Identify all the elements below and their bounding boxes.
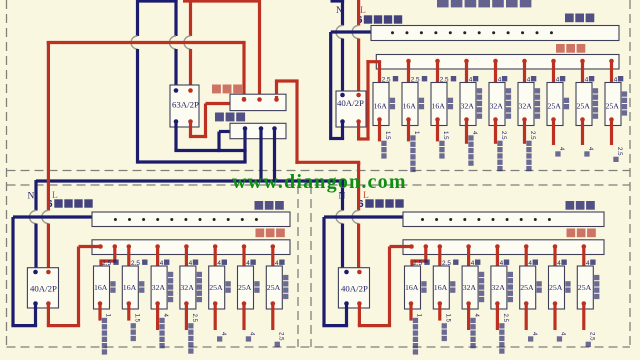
branch breaker TR7 25A: [547, 83, 563, 126]
busbar live service: [230, 94, 286, 110]
stud live B: [257, 97, 262, 102]
branch breaker BL5 out: [213, 301, 218, 306]
label circuit BR5: [537, 281, 542, 286]
wire live to bottom-right panel: [275, 79, 299, 82]
svg-text:25A: 25A: [209, 283, 223, 292]
branch breaker BL3 feed: [155, 244, 160, 249]
svg-text:4: 4: [275, 260, 279, 267]
branch breaker BR2 out: [438, 301, 443, 306]
wire top remnant navy top-right: [331, 0, 345, 3]
svg-text:25A: 25A: [520, 283, 534, 292]
wire breaker N top: [174, 0, 177, 36]
branch breaker BR6 25A: [549, 266, 565, 309]
svg-text:2.5: 2.5: [411, 77, 420, 84]
svg-text:www.diangon.com: www.diangon.com: [232, 171, 407, 193]
svg-text:25A: 25A: [549, 283, 563, 292]
branch breaker BR1 16A: [405, 266, 421, 309]
label circuit BR3: [479, 272, 484, 277]
label circuit BL1: [110, 281, 115, 286]
wire neutral bus lower: [36, 179, 344, 182]
label circuit BR4: [508, 272, 513, 277]
branch breaker BR1 out: [409, 301, 414, 306]
pin 40A TR top-left: [340, 93, 345, 98]
branch breaker BR2 16A: [433, 266, 449, 309]
zone divider horizontal 1: [7, 170, 631, 172]
label 火线排 bottom-left: [256, 229, 265, 238]
svg-text:N: N: [28, 192, 35, 202]
svg-text:2.5: 2.5: [500, 131, 507, 140]
label 零线排 bottom-left: [255, 201, 264, 210]
label circuit BR7: [594, 275, 599, 280]
pin 40A bottom-right bottom-right: [357, 301, 362, 306]
label circuit TR9: [622, 91, 627, 96]
wire 40A TR neutral out: [341, 122, 344, 139]
zone border left: [6, 0, 8, 347]
branch breaker TR7 feed: [551, 59, 556, 64]
label circuit BL6: [254, 281, 259, 286]
svg-text:4: 4: [560, 332, 567, 336]
svg-text:4: 4: [473, 314, 480, 318]
wire neutral feed top-right: [331, 30, 371, 33]
pin 40A TR bottom-left: [340, 119, 345, 124]
svg-text:25A: 25A: [577, 102, 591, 111]
label circuit TR7: [564, 98, 569, 103]
label 火线排 top-right: [556, 44, 565, 53]
svg-text:4: 4: [528, 260, 532, 267]
branch breaker TR1 out: [377, 117, 382, 122]
branch breaker TR9 feed: [609, 59, 614, 64]
svg-text:25A: 25A: [267, 283, 281, 292]
svg-text:4: 4: [217, 260, 221, 267]
stud neutral B: [259, 126, 264, 131]
branch breaker BL1 16A: [94, 266, 110, 309]
busbar live bottom-right: [403, 240, 604, 255]
branch breaker BR4 32A: [491, 266, 507, 309]
svg-text:4: 4: [531, 332, 538, 336]
branch breaker TR3 16A: [431, 83, 447, 126]
wire 63A live out: [189, 122, 192, 137]
svg-text:16A: 16A: [123, 283, 137, 292]
label circuit BL2: [139, 281, 144, 286]
svg-text:2.5: 2.5: [102, 260, 111, 267]
svg-text:4: 4: [587, 147, 594, 151]
branch breaker BL6 feed: [242, 244, 247, 249]
branch breaker TR9 out: [609, 117, 614, 122]
wire N in top-right: [341, 0, 344, 26]
label circuit BR2: [450, 281, 455, 286]
svg-text:4: 4: [614, 77, 618, 84]
busbar live bottom-left: [92, 240, 290, 255]
svg-text:4: 4: [586, 260, 590, 267]
svg-text:2.5: 2.5: [191, 314, 198, 323]
label circuit TR8: [593, 88, 598, 93]
svg-text:40A/2P: 40A/2P: [30, 284, 57, 294]
branch breaker BL5 feed: [213, 244, 218, 249]
wire L in top-right: [357, 0, 360, 26]
svg-text:32A: 32A: [152, 283, 166, 292]
wire top remnant red service: [183, 0, 260, 3]
wire 40A bottom-left neutral out: [34, 304, 37, 326]
pin 40A bottom-left top-left: [33, 270, 38, 275]
svg-text:2.5: 2.5: [413, 260, 422, 267]
branch breaker BR1 feed: [424, 244, 429, 249]
svg-text:4: 4: [162, 314, 169, 318]
wire 40A bottom-right neutral out: [345, 304, 348, 326]
pin 63A top-left: [174, 88, 179, 93]
busbar neutral bottom-right: [403, 212, 604, 227]
branch breaker BR3 feed: [466, 244, 471, 249]
branch breaker TR5 32A: [489, 83, 505, 126]
wire top remnant navy service: [138, 0, 178, 3]
label 零线排 top-right: [565, 14, 574, 23]
svg-text:1.5: 1.5: [442, 131, 449, 140]
svg-text:2.5: 2.5: [588, 332, 595, 341]
svg-text:25A: 25A: [606, 102, 620, 111]
pin 40A bottom-right top-right: [357, 270, 362, 275]
branch breaker BR4 feed: [495, 244, 500, 249]
branch breaker TR2 out: [406, 117, 411, 122]
branch breaker BR5 25A: [520, 266, 536, 309]
svg-text:1: 1: [416, 314, 423, 318]
pin 40A TR top-right: [356, 93, 361, 98]
branch breaker TR3 feed: [435, 59, 440, 64]
svg-text:4: 4: [469, 77, 473, 84]
branch breaker TR8 out: [580, 117, 585, 122]
label circuit BR1: [421, 281, 426, 286]
zone divider horizontal 2: [7, 184, 631, 186]
branch breaker TR8 feed: [580, 59, 585, 64]
svg-text:16A: 16A: [403, 102, 417, 111]
branch breaker BL2 out: [127, 301, 132, 306]
branch breaker BR5 feed: [524, 244, 529, 249]
busbar neutral bottom-left: [92, 212, 290, 227]
svg-text:32A: 32A: [519, 102, 533, 111]
branch breaker TR2 16A: [402, 83, 418, 126]
wire live feed bus: [47, 41, 50, 44]
stud neutral C: [272, 126, 277, 131]
zone border bottom: [7, 346, 631, 348]
branch breaker TR7 out: [551, 117, 556, 122]
label circuit TR6: [535, 88, 540, 93]
svg-text:16A: 16A: [432, 102, 446, 111]
svg-text:16A: 16A: [405, 283, 419, 292]
pin 63A bottom-right: [188, 119, 193, 124]
branch breaker BL6 out: [242, 301, 247, 306]
wire L incoming: [258, 0, 261, 100]
svg-text:25A: 25A: [548, 102, 562, 111]
branch breaker TR3 out: [435, 117, 440, 122]
label 火线排 bottom-right: [567, 229, 576, 238]
svg-text:4: 4: [585, 77, 589, 84]
svg-text:4: 4: [471, 131, 478, 135]
branch breaker BR2 feed: [438, 244, 443, 249]
branch breaker BR4 out: [495, 301, 500, 306]
breaker 40A/2P bottom-left: [27, 268, 58, 308]
stud live A: [242, 97, 245, 100]
svg-text:2.5: 2.5: [529, 131, 536, 140]
branch breaker BL1 out: [98, 301, 103, 306]
label circuit TR4: [477, 88, 482, 93]
branch breaker TR4 32A: [460, 83, 476, 126]
svg-text:1.5: 1.5: [384, 131, 391, 140]
wire N incoming: [136, 0, 139, 36]
svg-text:16A: 16A: [374, 102, 388, 111]
zone divider vertical left: [297, 185, 299, 347]
branch breaker BL2 16A: [122, 266, 138, 309]
wire N incoming to bus: [138, 160, 247, 163]
wire L in bottom-right: [357, 162, 360, 165]
svg-text:4: 4: [471, 260, 475, 267]
svg-text:1.5: 1.5: [444, 314, 451, 323]
wire N in bottom-right: [341, 180, 344, 181]
branch breaker TR6 feed: [522, 59, 527, 64]
svg-text:25A: 25A: [238, 283, 252, 292]
branch breaker BR6 out: [553, 301, 558, 306]
breaker 40A/2P bottom-right: [338, 268, 369, 308]
pin 63A top-right: [188, 88, 193, 93]
zone divider vertical right: [310, 185, 312, 347]
wire 40A bottom-left live out: [47, 304, 50, 326]
svg-text:4: 4: [500, 260, 504, 267]
wire 40A bottom-right live out: [358, 304, 361, 326]
branch breaker BL1 feed: [113, 244, 118, 249]
busbar live top-right: [376, 55, 619, 70]
branch breaker BR7 feed: [582, 244, 587, 249]
svg-text:40A/2P: 40A/2P: [341, 284, 368, 294]
branch breaker TR6 32A: [518, 83, 534, 126]
branch breaker TR4 out: [464, 117, 469, 122]
label circuit BL4: [197, 272, 202, 277]
svg-text:40A/2P: 40A/2P: [337, 98, 364, 108]
branch breaker BR3 out: [466, 301, 471, 306]
branch breaker TR9 25A: [605, 83, 621, 126]
pin 40A bottom-left bottom-left: [33, 301, 38, 306]
pin 40A bottom-right bottom-left: [344, 301, 349, 306]
branch breaker BR6 feed: [553, 244, 558, 249]
svg-text:2.5: 2.5: [131, 260, 140, 267]
branch breaker TR1 feed: [377, 87, 382, 92]
pin 40A TR bottom-right: [356, 119, 361, 124]
pin 40A bottom-left bottom-right: [46, 301, 51, 306]
breaker 40A/2P top-right: [336, 91, 366, 127]
svg-text:4: 4: [249, 332, 256, 336]
stud live C: [275, 81, 278, 94]
branch breaker BL4 feed: [184, 244, 189, 249]
label 火线排 service: [212, 85, 221, 94]
label 零线排 service: [215, 113, 224, 122]
label circuit TR2: [419, 98, 424, 103]
svg-text:4: 4: [527, 77, 531, 84]
svg-text:16A: 16A: [434, 283, 448, 292]
svg-text:4: 4: [220, 332, 227, 336]
svg-text:2.5: 2.5: [616, 147, 623, 156]
branch breaker TR1 16A: [373, 83, 389, 126]
pin 40A bottom-left top-right: [46, 270, 51, 275]
neutral bar dots top-right: [391, 31, 394, 34]
label circuit BR6: [565, 281, 570, 286]
branch breaker BL6 25A: [238, 266, 254, 309]
branch breaker TR6 out: [522, 117, 527, 122]
label circuit BL5: [226, 281, 231, 286]
branch breaker BL7 out: [271, 301, 276, 306]
svg-text:32A: 32A: [491, 283, 505, 292]
wire 63A neutral out: [174, 122, 177, 151]
wire neutral feed bottom-right: [324, 215, 403, 218]
busbar neutral top-right: [371, 26, 619, 41]
svg-text:4: 4: [189, 260, 193, 267]
busbar neutral service: [230, 123, 286, 138]
wire 40A TR live out: [357, 122, 360, 140]
branch breaker BL4 out: [184, 301, 189, 306]
branch breaker TR2 feed: [406, 59, 411, 64]
zone border right: [629, 0, 631, 347]
svg-text:32A: 32A: [490, 102, 504, 111]
branch breaker BL7 25A: [266, 266, 282, 309]
branch breaker BL4 32A: [180, 266, 196, 309]
label circuit TR1: [390, 98, 395, 103]
pin 40A bottom-right top-left: [344, 270, 349, 275]
svg-text:1.5: 1.5: [133, 314, 140, 323]
branch breaker BL2 feed: [127, 244, 132, 249]
neutral bar dots bottom-left: [114, 218, 117, 221]
caption 分成三个区安装: [437, 0, 449, 7]
svg-text:25A: 25A: [578, 283, 592, 292]
branch breaker BR7 25A: [577, 266, 593, 309]
branch breaker BL7 feed: [271, 244, 276, 249]
branch breaker TR5 out: [493, 117, 498, 122]
label 零线排 bottom-right: [566, 201, 575, 210]
wire N in bottom-left: [34, 180, 37, 181]
svg-text:1: 1: [105, 314, 112, 318]
svg-text:2.5: 2.5: [277, 332, 284, 341]
label circuit TR5: [506, 88, 511, 93]
svg-text:4: 4: [160, 260, 164, 267]
svg-text:4: 4: [498, 77, 502, 84]
label circuit TR3: [448, 98, 453, 103]
label circuit BL3: [168, 272, 173, 277]
branch breaker BL5 25A: [209, 266, 225, 309]
svg-text:2.5: 2.5: [442, 260, 451, 267]
branch breaker BL3 32A: [151, 266, 167, 309]
label circuit BL7: [283, 275, 288, 280]
svg-text:32A: 32A: [180, 283, 194, 292]
stud neutral A: [243, 126, 248, 131]
breaker 63A/2P: [170, 85, 199, 127]
svg-text:32A: 32A: [463, 283, 477, 292]
svg-text:4: 4: [558, 147, 565, 151]
svg-text:4: 4: [557, 260, 561, 267]
svg-text:63A/2P: 63A/2P: [172, 100, 199, 110]
branch breaker BL3 out: [155, 301, 160, 306]
branch breaker TR8 25A: [576, 83, 592, 126]
svg-text:2.5: 2.5: [502, 314, 509, 323]
svg-text:1: 1: [413, 131, 420, 135]
svg-text:32A: 32A: [461, 102, 475, 111]
wire neutral feed bottom-left: [13, 215, 92, 218]
branch breaker BR7 out: [582, 301, 587, 306]
wire L in bottom-left: [47, 43, 50, 211]
svg-text:16A: 16A: [94, 283, 108, 292]
branch breaker TR5 feed: [493, 59, 498, 64]
branch breaker BR5 out: [524, 301, 529, 306]
svg-text:4: 4: [246, 260, 250, 267]
neutral bar dots bottom-right: [421, 218, 424, 221]
svg-text:2.5: 2.5: [382, 77, 391, 84]
svg-text:4: 4: [556, 77, 560, 84]
branch breaker TR4 feed: [464, 59, 469, 64]
pin 63A bottom-left: [174, 119, 179, 124]
branch breaker BR3 32A: [462, 266, 478, 309]
svg-text:2.5: 2.5: [440, 77, 449, 84]
wire breaker L top: [189, 0, 192, 36]
